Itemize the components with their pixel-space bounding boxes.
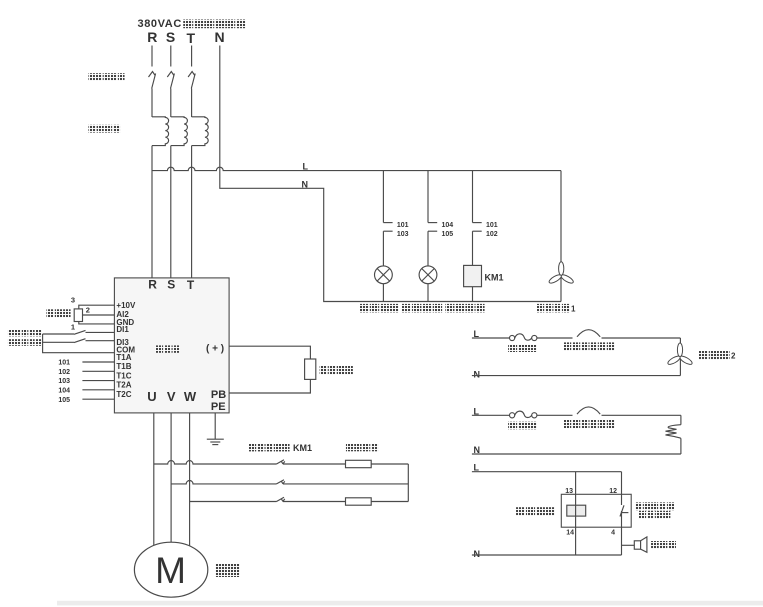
buzzer HA1 [634, 537, 647, 552]
pin number 1 [71, 322, 75, 331]
resistor R-brake-3 [346, 498, 372, 505]
fuse FU2 [509, 411, 536, 418]
label inverter (bianpinqi) [155, 345, 180, 352]
svg-text:3: 3 [71, 295, 75, 304]
wire W phase to motor [189, 413, 191, 547]
pin label T [187, 278, 195, 292]
wire L to relay pin 13 [575, 472, 577, 495]
label run/stop (yunxing tingzhi) [8, 330, 42, 337]
node S [166, 29, 175, 45]
svg-text:103: 103 [397, 231, 409, 238]
svg-text:L: L [303, 161, 309, 171]
resistor R-brake-1 [346, 460, 372, 467]
pin label PE [211, 401, 226, 413]
svg-text:103: 103 [58, 378, 70, 385]
node N label [302, 179, 309, 189]
switch S1 run/stop to DI1 [43, 330, 115, 334]
label NC temperature switch [563, 420, 614, 428]
pin label T1C [116, 371, 131, 380]
wire resistor 1 to right rail [371, 463, 408, 465]
pin label PB [211, 389, 226, 401]
fuse FU1 [509, 334, 536, 341]
wire R reactor to inverter [151, 146, 153, 278]
reactor L R phase [152, 117, 169, 146]
wire brake right rail [407, 464, 409, 502]
svg-text:( + ): ( + ) [206, 344, 224, 355]
svg-text:N: N [474, 370, 481, 380]
wire common to COM [43, 334, 115, 353]
label input reactor (shuru diankangqi) [88, 125, 120, 133]
motor M [134, 542, 207, 597]
svg-text:1: 1 [71, 322, 75, 331]
svg-text:4: 4 [611, 530, 615, 537]
resistor R-brake (zhidong dianzu) [305, 359, 316, 379]
svg-text:2: 2 [731, 352, 736, 361]
label brake resistor [346, 444, 378, 452]
wire T breaker to reactor [191, 89, 193, 118]
wire S breaker to reactor [170, 89, 172, 118]
svg-text:S: S [167, 277, 175, 291]
svg-text:+10V: +10V [116, 301, 136, 310]
pin label AI2 [116, 310, 129, 319]
pin label T2C [116, 390, 131, 399]
label time relay NC contact line2 [639, 511, 670, 519]
reactor L T phase [192, 117, 209, 146]
potentiometer RP1 [74, 309, 82, 322]
label buzzer (fengmingqi) [651, 541, 676, 549]
fan M1 cabinet fan 1 [548, 171, 575, 302]
contact KM1-2 [277, 480, 285, 484]
svg-text:R: R [147, 29, 157, 45]
wire R phase top [151, 46, 153, 67]
node N label (heater circuit) [474, 445, 481, 455]
svg-text:R: R [148, 277, 157, 291]
wire PE down [214, 413, 216, 439]
pin label DI1 [116, 325, 129, 334]
node N label (relay circuit) [474, 549, 481, 559]
lamp HL1 run indicator [375, 231, 393, 301]
wire stub to buzzer [622, 544, 635, 546]
pin label V [167, 389, 176, 404]
label KM1 [485, 273, 504, 283]
svg-text:105: 105 [58, 397, 70, 404]
pin number 14 [566, 530, 574, 537]
svg-text:DI1: DI1 [116, 325, 129, 334]
node R [147, 29, 157, 45]
relay coil KT1 [567, 494, 586, 527]
wire L rail relay circuit [472, 471, 622, 473]
svg-text:M: M [155, 550, 186, 591]
pin label U [147, 389, 156, 404]
wire net L from R phase with hops [152, 167, 561, 170]
svg-text:T1C: T1C [116, 371, 131, 380]
label motor (dianji) [215, 564, 239, 577]
label cabinet fan 2 [698, 351, 736, 361]
pin label +10V [116, 301, 136, 310]
wire N rail fan2 circuit [472, 375, 681, 377]
svg-text:380VAC: 380VAC [138, 18, 182, 30]
inverter U1 (bianpinqi) body [114, 278, 229, 413]
label fuse (baoxiansi) [508, 344, 537, 352]
pin label (+) [206, 344, 224, 355]
scrollbar track (decor) [57, 601, 763, 606]
svg-text:PE: PE [211, 401, 226, 413]
switch S2 fault reset to DI3 [43, 339, 115, 343]
pin label R [148, 277, 157, 291]
node N [214, 29, 224, 45]
relay contact 104/105 (alarm lamp branch) [428, 171, 453, 238]
wire relay pin 14 to N [575, 527, 577, 555]
label braking resistor [320, 366, 353, 374]
wire T phase top [191, 46, 193, 67]
svg-text:KM1: KM1 [293, 443, 312, 453]
thermal switch ST1 normally-open [577, 330, 600, 337]
terminal 101 stub to T1A [58, 360, 114, 367]
pin label GND [116, 318, 134, 327]
wire contact pin 4 down [621, 527, 623, 555]
svg-text:101: 101 [58, 360, 70, 367]
svg-text:S: S [166, 29, 175, 45]
terminal 103 stub to T1C [58, 378, 114, 385]
wire pot pin3 to +10V [79, 305, 115, 309]
wire N rail heater circuit [472, 453, 681, 455]
pin label T1A [116, 353, 131, 362]
reactor L S phase [171, 117, 188, 146]
contact KM1-1 [277, 460, 285, 464]
svg-text:V: V [167, 389, 176, 404]
svg-text:101: 101 [397, 222, 409, 229]
wire N rail relay circuit [472, 554, 622, 556]
pin number 12 [609, 488, 617, 495]
wire S phase top [170, 46, 172, 67]
wire pot pin1 to GND [79, 322, 115, 324]
svg-text:1: 1 [571, 305, 576, 314]
thermal switch ST2 normally-closed [577, 407, 600, 414]
pin label COM [116, 345, 135, 354]
breaker QF S phase [167, 72, 174, 89]
svg-text:102: 102 [486, 231, 498, 238]
node T [187, 30, 196, 46]
pin number 4 [611, 530, 615, 537]
wire L rail heater circuit [472, 414, 681, 416]
label brake contactor KM1 [249, 443, 312, 453]
wire tap2 to right rail [283, 483, 408, 485]
label circuit breaker (dianyuan yunzhuan kongkai) [88, 73, 124, 80]
svg-text:N: N [214, 29, 224, 45]
label 380VAC AC power input title [138, 18, 246, 30]
wire brake tap 2 with hop [171, 480, 276, 483]
svg-text:104: 104 [442, 222, 454, 229]
svg-text:T: T [187, 30, 196, 46]
label fuse (baoxiansi) [508, 422, 537, 430]
svg-text:PB: PB [211, 389, 226, 401]
pin number 3 [71, 295, 75, 304]
wire (+) to braking resistor [229, 346, 310, 359]
label brake contactor [445, 304, 484, 313]
wire S reactor to inverter [170, 146, 172, 278]
node L label (fan2 circuit) [474, 329, 480, 339]
breaker QF R phase [149, 72, 156, 89]
wire U phase to motor [153, 413, 155, 547]
svg-text:105: 105 [442, 231, 454, 238]
heater element coil [666, 415, 681, 454]
pin label DI3 [116, 338, 129, 347]
wire T reactor to inverter [191, 146, 193, 278]
NC contact KT1 12-4 [620, 494, 628, 527]
wire L to contact pin 12 [621, 472, 623, 495]
label time relay NC contact line1 [635, 502, 674, 510]
pin number 13 [565, 488, 573, 495]
label run indicator lamp [360, 304, 399, 313]
label alarm indicator lamp [402, 304, 443, 313]
breaker QF T phase [188, 72, 195, 89]
svg-text:U: U [147, 389, 156, 404]
svg-text:N: N [474, 549, 481, 559]
svg-text:104: 104 [58, 387, 70, 394]
relay contact 101/102 (KM1 branch) [473, 171, 498, 238]
wire to brake resistor 1 [283, 463, 346, 465]
fan M2 cabinet fan 2 [667, 338, 694, 376]
svg-text:101: 101 [486, 222, 498, 229]
contactor coil KM1 [464, 231, 482, 301]
pin label S [167, 277, 175, 291]
label NO temperature switch [563, 342, 614, 350]
node L label [303, 161, 309, 171]
wire brake tap 1 with hops [154, 461, 277, 464]
svg-text:2: 2 [86, 306, 90, 315]
relay contact 101/103 (run lamp branch) [383, 171, 408, 238]
wire R breaker to reactor [151, 89, 153, 118]
ground [207, 439, 224, 444]
svg-text:T1B: T1B [116, 362, 131, 371]
pin label W [184, 389, 197, 404]
wire braking resistor to PB [229, 379, 310, 393]
wire L rail fan2 circuit [472, 337, 681, 339]
svg-text:T: T [187, 278, 195, 292]
wire net N (N column, branch to lamp rail) [220, 46, 561, 302]
terminal 102 stub to T1B [58, 369, 114, 376]
wire brake tap 3 [190, 501, 277, 503]
pin label T1B [116, 362, 131, 371]
node L label (relay circuit) [474, 463, 480, 473]
contact KM1-3 [277, 497, 285, 501]
svg-text:KM1: KM1 [485, 273, 504, 283]
svg-text:N: N [302, 179, 309, 189]
time relay KT1 box [561, 494, 631, 527]
label time relay [516, 507, 555, 516]
pin label T2A [116, 381, 131, 390]
label fault reset (guzhang fuwei) [8, 339, 42, 346]
label cabinet fan 1 [537, 304, 576, 314]
wire V phase to motor [170, 413, 172, 543]
pin number 2 [86, 306, 90, 315]
wire to brake resistor 3 [283, 501, 346, 503]
svg-text:102: 102 [58, 369, 70, 376]
node N label (fan2 circuit) [474, 370, 481, 380]
svg-text:T2C: T2C [116, 390, 131, 399]
lamp HL2 alarm indicator [419, 231, 437, 301]
svg-text:14: 14 [566, 530, 574, 537]
terminal 105 stub to T2C [58, 397, 114, 404]
svg-text:W: W [184, 389, 197, 404]
wire pot wiper to AI2 [83, 314, 115, 316]
wire resistor 3 to right rail [371, 501, 408, 503]
svg-text:T1A: T1A [116, 353, 131, 362]
label potentiometer (dianweiqi) [46, 309, 70, 317]
node L label (heater circuit) [474, 406, 480, 416]
svg-text:T2A: T2A [116, 381, 131, 390]
terminal 104 stub to T2A [58, 387, 114, 394]
